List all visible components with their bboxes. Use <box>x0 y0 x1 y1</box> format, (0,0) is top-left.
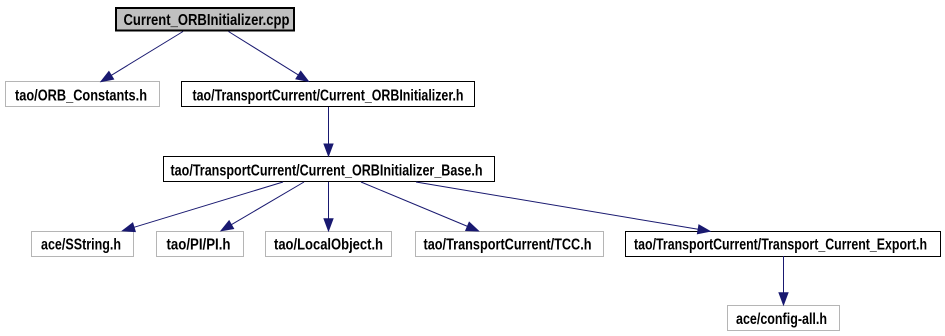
node tao/TransportCurrent/Transport_Current_Export.h <box>626 232 941 257</box>
edge Transport_Current_Export.h -> ace/config-all.h <box>779 256 788 305</box>
edge Current_ORBInitializer.cpp -> tao/ORB_Constants.h <box>101 32 183 82</box>
svg-text:Current_ORBInitializer.cpp: Current_ORBInitializer.cpp <box>124 12 290 29</box>
node ace/SString.h <box>32 232 134 257</box>
node tao/TransportCurrent/TCC.h <box>416 232 604 257</box>
svg-text:tao/ORB_Constants.h: tao/ORB_Constants.h <box>15 87 147 104</box>
edge Current_ORBInitializer_Base.h -> tao/TransportCurrent/TCC.h <box>361 182 479 231</box>
svg-text:tao/TransportCurrent/Current_O: tao/TransportCurrent/Current_ORBInitiali… <box>171 162 483 179</box>
node tao/TransportCurrent/Current_ORBInitializer.h <box>182 82 475 107</box>
node tao/PI/PI.h <box>157 232 244 257</box>
node tao/LocalObject.h <box>266 232 392 257</box>
svg-text:ace/config-all.h: ace/config-all.h <box>736 311 827 328</box>
edge Current_ORBInitializer.cpp -> tao/TransportCurrent/Current_ORBInitializer.h <box>229 32 309 82</box>
edge Current_ORBInitializer_Base.h -> Transport_Current_Export.h <box>416 182 710 234</box>
svg-text:ace/SString.h: ace/SString.h <box>41 236 121 253</box>
svg-text:tao/TransportCurrent/TCC.h: tao/TransportCurrent/TCC.h <box>424 236 592 253</box>
svg-text:tao/TransportCurrent/Transport: tao/TransportCurrent/Transport_Current_E… <box>634 236 927 253</box>
edge Current_ORBInitializer_Base.h -> tao/PI/PI.h <box>221 182 304 231</box>
node ace/config-all.h <box>728 306 840 331</box>
edge Current_ORBInitializer_Base.h -> ace/SString.h <box>123 182 284 232</box>
svg-text:tao/LocalObject.h: tao/LocalObject.h <box>274 236 383 253</box>
svg-text:tao/PI/PI.h: tao/PI/PI.h <box>167 236 231 253</box>
node Current_ORBInitializer.cpp (root) <box>116 8 294 31</box>
node tao/ORB_Constants.h <box>6 82 160 107</box>
edge Current_ORBInitializer_Base.h -> tao/LocalObject.h <box>324 182 333 231</box>
node tao/TransportCurrent/Current_ORBInitializer_Base.h <box>164 157 495 182</box>
svg-text:tao/TransportCurrent/Current_O: tao/TransportCurrent/Current_ORBInitiali… <box>193 87 464 104</box>
edge Current_ORBInitializer.h -> Current_ORBInitializer_Base.h <box>324 107 333 156</box>
